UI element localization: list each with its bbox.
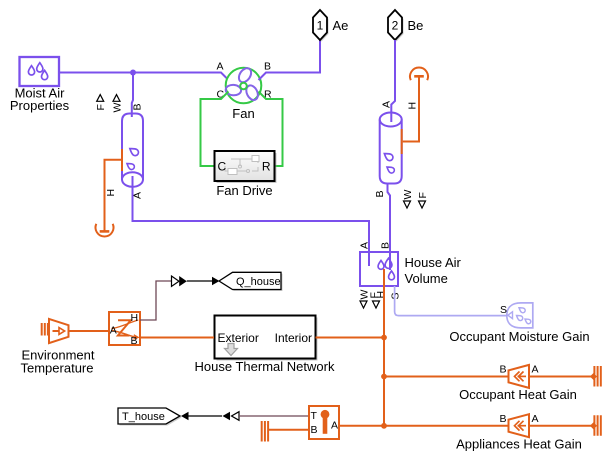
svg-text:B: B xyxy=(500,413,507,425)
block House Thermal Network xyxy=(215,316,318,361)
node junction interior xyxy=(381,335,387,341)
svg-text:B: B xyxy=(132,103,144,110)
label House Air Volume xyxy=(405,255,462,286)
svg-text:H: H xyxy=(375,291,387,299)
svg-text:Occupant Heat Gain: Occupant Heat Gain xyxy=(459,387,577,402)
wire reference to sensor B xyxy=(268,429,309,431)
wire Z B to exterior xyxy=(140,337,214,339)
PS-Simulink converter (Q_house) xyxy=(172,276,187,286)
wire Z H to PS converter (physical signal) xyxy=(140,281,172,320)
wire environment temperature to conductive block A xyxy=(69,330,110,332)
pin label W triangle (right cylinder) xyxy=(402,190,414,209)
svg-text:S: S xyxy=(500,304,507,316)
block right cylinder humidifier xyxy=(380,113,402,184)
svg-text:Exterior: Exterior xyxy=(218,331,259,345)
svg-text:A: A xyxy=(217,61,224,73)
source Environment Temperature xyxy=(42,319,69,343)
svg-text:A: A xyxy=(532,413,539,425)
wire moist air properties to fan A xyxy=(60,73,229,81)
port 1 Ae xyxy=(313,10,329,42)
svg-text:W: W xyxy=(402,190,414,200)
wire right cylinder B to house air volume B xyxy=(388,183,391,270)
svg-text:Properties: Properties xyxy=(10,98,70,113)
pin label W triangle (left cylinder) xyxy=(112,95,124,113)
pin label F triangle (right cylinder) xyxy=(417,192,429,208)
wire fan C to fan drive C xyxy=(201,92,229,167)
svg-text:2: 2 xyxy=(392,19,399,33)
block House Air Volume xyxy=(360,252,398,286)
svg-text:H: H xyxy=(407,102,419,110)
svg-text:Fan Drive: Fan Drive xyxy=(216,183,272,198)
svg-text:W: W xyxy=(112,103,124,113)
svg-text:F: F xyxy=(95,104,107,110)
pin label F triangle (left cylinder) xyxy=(95,95,107,111)
node junction appliances heat xyxy=(381,423,387,429)
label Environment Temperature xyxy=(21,348,95,376)
sensor thermometer icon xyxy=(321,410,330,434)
thermal reference right (occupant) xyxy=(594,366,600,387)
wire port Be down to right cylinder A xyxy=(391,40,395,122)
wire junction to humidifier B xyxy=(132,73,133,118)
source Occupant Heat Gain xyxy=(509,365,530,388)
svg-text:Q_house: Q_house xyxy=(236,276,281,288)
block conductive heat transfer Z xyxy=(109,312,140,345)
svg-text:A: A xyxy=(381,101,393,108)
svg-text:Appliances Heat Gain: Appliances Heat Gain xyxy=(456,437,582,452)
wire right cylinder H to cap xyxy=(403,81,419,142)
wire left cylinder H to cap xyxy=(105,160,122,219)
fan propeller xyxy=(225,66,260,102)
svg-text:R: R xyxy=(262,160,271,174)
wire interior to trunk xyxy=(316,337,385,339)
svg-text:Interior: Interior xyxy=(275,331,312,345)
wire fan R to fan drive R xyxy=(259,92,283,167)
svg-text:B: B xyxy=(264,61,271,73)
wire trunk to appliances heat gain B xyxy=(384,425,509,427)
svg-text:B: B xyxy=(380,242,392,249)
svg-text:T_house: T_house xyxy=(122,411,165,423)
svg-text:Be: Be xyxy=(408,18,424,33)
svg-text:House Thermal Network: House Thermal Network xyxy=(195,359,335,374)
svg-text:B: B xyxy=(131,335,138,347)
svg-text:A: A xyxy=(132,192,144,199)
signal wire T_house xyxy=(189,415,223,417)
PS wire to sensor T xyxy=(239,415,309,417)
pin label W triangle (house air volume) xyxy=(359,290,371,309)
port 2 Be xyxy=(388,10,404,42)
block left cylinder humidifier xyxy=(122,114,143,187)
fan U2 circle xyxy=(226,68,262,104)
thermal reference right (appliances) xyxy=(594,415,600,436)
PS-Simulink converter (T_house) xyxy=(223,412,240,421)
svg-text:H: H xyxy=(105,189,117,197)
block Fan Drive xyxy=(215,151,277,183)
svg-text:A: A xyxy=(532,364,539,376)
orange trunk from house air volume H down xyxy=(383,269,385,426)
wire left cylinder A to house air volume A xyxy=(133,176,370,266)
svg-text:1: 1 xyxy=(317,19,324,33)
svg-text:Volume: Volume xyxy=(405,271,448,286)
label Moist Air Properties xyxy=(10,86,70,114)
tag T_house xyxy=(118,408,182,426)
svg-text:B: B xyxy=(500,364,507,376)
pin H highlight (right cylinder) xyxy=(401,129,403,154)
svg-text:A: A xyxy=(331,420,338,432)
fan hub xyxy=(240,83,247,90)
svg-text:T: T xyxy=(311,410,318,422)
wire house air volume S to occupant moisture gain xyxy=(395,286,507,316)
block temperature sensor xyxy=(309,406,339,439)
svg-text:Temperature: Temperature xyxy=(21,361,94,376)
svg-text:A: A xyxy=(110,325,117,337)
insulated cap right (thermal) xyxy=(410,67,428,85)
svg-text:B: B xyxy=(311,424,318,436)
tag Q_house xyxy=(219,272,283,291)
node junction at fan wire xyxy=(130,70,136,76)
signal wire to Q_house tag xyxy=(187,280,213,282)
wire fan B to port Ae xyxy=(259,40,321,80)
svg-text:Ae: Ae xyxy=(333,18,349,33)
svg-text:B: B xyxy=(374,190,386,197)
wire sensor A to trunk xyxy=(339,425,384,427)
svg-text:A: A xyxy=(359,242,371,249)
svg-text:F: F xyxy=(417,192,429,198)
svg-text:C: C xyxy=(218,160,227,174)
source Appliances Heat Gain xyxy=(509,414,530,437)
svg-text:Fan: Fan xyxy=(232,106,254,121)
block Occupant Moisture Gain xyxy=(507,303,533,328)
svg-text:Occupant Moisture Gain: Occupant Moisture Gain xyxy=(449,329,589,344)
svg-text:S: S xyxy=(390,292,402,299)
wire trunk to occupant heat gain B xyxy=(384,376,509,378)
wire appliances heat gain A to reference xyxy=(529,425,593,427)
insulated cap left (thermal) xyxy=(95,219,113,237)
thermal reference (sensor B) xyxy=(262,421,268,442)
wire occupant heat gain A to reference xyxy=(529,376,593,378)
pin label F triangle (house air volume) xyxy=(369,292,381,308)
pin H highlight (left cylinder) xyxy=(121,149,123,171)
node junction occupant heat xyxy=(381,374,387,380)
svg-text:House Air: House Air xyxy=(405,255,462,270)
signal arrow into T_house xyxy=(181,412,189,421)
block U1 Moist Air Properties xyxy=(20,57,60,86)
svg-text:H: H xyxy=(131,312,139,324)
